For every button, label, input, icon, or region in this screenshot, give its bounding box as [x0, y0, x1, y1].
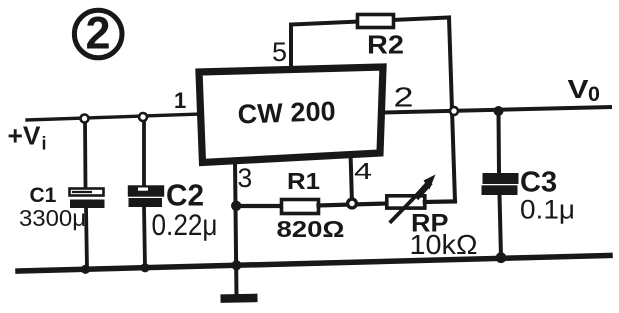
- svg-text:C2: C2: [166, 178, 204, 213]
- svg-text:3: 3: [238, 163, 253, 193]
- svg-text:10kΩ: 10kΩ: [410, 229, 478, 260]
- svg-text:R1: R1: [287, 168, 320, 194]
- svg-text:C1: C1: [30, 184, 57, 207]
- svg-text:2: 2: [394, 82, 414, 113]
- svg-text:2: 2: [85, 8, 110, 59]
- svg-text:+V: +V: [8, 120, 42, 150]
- svg-text:4: 4: [354, 158, 372, 184]
- svg-text:820Ω: 820Ω: [277, 216, 345, 242]
- svg-text:5: 5: [272, 37, 287, 67]
- svg-text:CW 200: CW 200: [237, 96, 336, 129]
- svg-text:3300μ: 3300μ: [19, 205, 86, 231]
- svg-text:R2: R2: [367, 30, 404, 60]
- svg-text:0: 0: [588, 82, 600, 106]
- svg-text:i: i: [42, 134, 47, 154]
- svg-text:1: 1: [174, 88, 186, 113]
- svg-text:V: V: [568, 74, 590, 104]
- svg-text:0.1μ: 0.1μ: [520, 195, 575, 225]
- svg-text:0.22μ: 0.22μ: [152, 209, 218, 242]
